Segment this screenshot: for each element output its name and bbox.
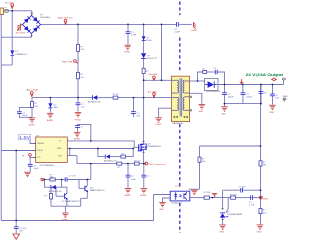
svg-text:R? 10k: R? 10k [204, 192, 212, 194]
svg-text:R? 301: R? 301 [230, 194, 238, 196]
svg-text:PDS5100H-13: PDS5100H-13 [206, 91, 221, 93]
svg-text:2kV: 2kV [19, 230, 23, 232]
svg-text:CGND: CGND [191, 30, 198, 32]
svg-text:R? 1.2: R? 1.2 [134, 160, 141, 162]
svg-text:DF10SA-T: DF10SA-T [40, 16, 51, 19]
svg-text:51k: 51k [80, 77, 84, 79]
svg-text:Aux GND: Aux GND [148, 91, 158, 94]
svg-text:GND: GND [159, 209, 164, 211]
svg-text:GND: GND [269, 112, 274, 114]
svg-text:10n: 10n [81, 107, 85, 109]
svg-text:0.1uF: 0.1uF [131, 34, 137, 36]
svg-text:RV? 300V: RV? 300V [16, 32, 26, 34]
svg-text:PGND: PGND [155, 124, 162, 126]
svg-text:FDMS86252L: FDMS86252L [148, 146, 162, 148]
svg-text:VSENSE: VSENSE [37, 143, 45, 145]
svg-text:51k: 51k [81, 49, 85, 51]
svg-text:NTC sense res: NTC sense res [149, 163, 166, 166]
svg-text:MMBT3904-TP: MMBT3904-TP [90, 190, 105, 192]
svg-text:220uF: 220uF [228, 96, 235, 98]
svg-text:C? 1uF: C? 1uF [239, 186, 247, 188]
svg-text:VGLUE: VGLUE [37, 150, 44, 152]
svg-text:R? 10: R? 10 [113, 94, 119, 96]
svg-text:C?: C? [264, 93, 268, 95]
svg-text:AGND: AGND [62, 218, 69, 221]
svg-text:R?: R? [80, 74, 84, 76]
svg-text:1uF: 1uF [275, 98, 279, 100]
svg-text:R?: R? [146, 71, 150, 73]
svg-text:Q? MMBT3904-TP: Q? MMBT3904-TP [62, 201, 81, 203]
svg-text:C?: C? [147, 176, 151, 178]
svg-text:AGND: AGND [29, 123, 36, 126]
svg-text:2.2nF: 2.2nF [174, 32, 180, 34]
svg-text:Prim SW: Prim SW [148, 73, 157, 76]
svg-text:R?: R? [44, 196, 48, 198]
svg-text:10uF: 10uF [33, 168, 38, 170]
svg-text:TCMT1107: TCMT1107 [171, 203, 183, 205]
svg-text:Net NN_N: Net NN_N [5, 1, 14, 4]
svg-text:F?: F? [5, 7, 7, 9]
svg-text:Aux Rail: Aux Rail [27, 89, 39, 92]
svg-text:UCC28630DR: UCC28630DR [40, 165, 54, 167]
svg-text:49k: 49k [263, 165, 267, 167]
svg-text:1uF: 1uF [136, 115, 140, 117]
svg-text:Hip VR: Hip VR [62, 62, 73, 64]
svg-text:0.1uF: 0.1uF [249, 205, 255, 207]
svg-text:51k: 51k [34, 106, 38, 108]
svg-text:220uF: 220uF [246, 96, 253, 98]
svg-text:GND: GND [257, 232, 262, 234]
svg-text:PGND: PGND [124, 52, 131, 54]
svg-text:BZX384-C16: BZX384-C16 [49, 191, 62, 193]
svg-text:U? FB: U? FB [175, 186, 181, 188]
svg-text:AGND: AGND [74, 138, 81, 141]
svg-text:AGND: AGND [140, 194, 147, 197]
svg-text:CDBW40-G: CDBW40-G [15, 54, 27, 56]
svg-text:PGND: PGND [75, 119, 82, 121]
svg-text:5.1k: 5.1k [263, 212, 268, 214]
svg-text:BAV: BAV [54, 106, 59, 109]
svg-text:High Volt DC: High Volt DC [58, 16, 74, 19]
svg-text:C?: C? [213, 68, 217, 70]
svg-text:2.4k: 2.4k [202, 161, 207, 163]
svg-text:10uF: 10uF [131, 179, 136, 181]
svg-text:P6KE: P6KE [146, 40, 152, 42]
svg-text:1.5V: 1.5V [19, 135, 31, 140]
svg-text:GND: GND [221, 113, 226, 115]
svg-text:GND: GND [219, 232, 224, 234]
svg-text:FB: FB [22, 155, 25, 157]
svg-text:AGND: AGND [125, 194, 132, 197]
svg-text:TL431ACDBZR: TL431ACDBZR [227, 213, 243, 216]
svg-text:BZX384-C16: BZX384-C16 [88, 101, 101, 103]
svg-text:U?: U? [227, 211, 231, 213]
svg-text:GND: GND [199, 111, 204, 113]
svg-text:ES1JL-TP: ES1JL-TP [147, 58, 158, 60]
svg-text:24 V@3A Output: 24 V@3A Output [246, 72, 284, 77]
svg-text:R?: R? [81, 46, 85, 48]
svg-text:D?: D? [40, 14, 44, 16]
svg-text:GA3460-BL: GA3460-BL [172, 122, 184, 125]
svg-text:GND: GND [283, 96, 288, 98]
svg-text:10uF: 10uF [22, 115, 27, 117]
svg-text:AGND: AGND [47, 119, 54, 122]
svg-text:24Vfb: 24Vfb [263, 198, 268, 200]
svg-text:BZX384-C16: BZX384-C16 [104, 161, 117, 163]
svg-text:R?: R? [117, 167, 121, 169]
svg-text:C?: C? [81, 127, 85, 129]
svg-text:C? 1uF: C? 1uF [69, 176, 77, 178]
